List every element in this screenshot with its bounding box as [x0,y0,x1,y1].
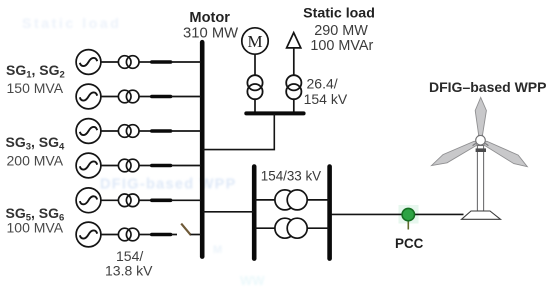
wire [191,234,202,236]
breaker B6 [152,233,171,237]
svg-text:WW: WW [240,273,265,287]
svg-text:Static load: Static load [22,15,121,31]
wire [139,96,151,98]
wire stub [171,234,177,236]
wire [254,99,256,112]
wire [307,227,329,229]
svg-text:150 MVA: 150 MVA [7,80,64,96]
base [462,211,501,219]
generator G3 [76,119,101,144]
svg-text:DFIG–based WPP: DFIG–based WPP [429,79,546,95]
svg-text:100 MVA: 100 MVA [7,220,64,236]
static load arrow [287,33,301,48]
generator G4 [76,153,101,178]
ghost text mid (DFIG-based WPP remnant) [100,177,237,193]
svg-text:13.8 kV: 13.8 kV [105,263,153,279]
svg-text:M: M [213,244,222,256]
ghost smudge bottom [240,273,265,287]
breaker B3 [152,129,171,133]
wire [171,61,201,63]
svg-text:M: M [247,32,262,51]
generator G2 [76,84,101,109]
wire row A [255,199,276,201]
PCC stub [407,219,409,230]
33 kV bus right [327,167,332,259]
transformer TB 154/33 [275,218,307,238]
generator G5 [76,188,101,213]
hub struts [473,135,489,146]
svg-text:200 MVA: 200 MVA [7,152,64,168]
generator G6 [76,222,101,247]
transformer T3 [118,125,139,138]
wire [171,199,201,201]
svg-text:SG3, SG4: SG3, SG4 [6,134,66,153]
svg-text:290 MW: 290 MW [314,23,368,39]
wire [139,165,151,167]
wire [171,96,201,98]
svg-text:DFIG-based WPP: DFIG-based WPP [100,177,237,193]
wire [139,199,151,201]
svg-text:154/33 kV: 154/33 kV [261,169,321,184]
svg-text:Motor: Motor [189,10,230,26]
wire row B [255,227,276,229]
wire [293,48,295,76]
wire [139,61,151,63]
svg-text:SG1, SG2: SG1, SG2 [6,62,65,81]
wire [101,130,118,132]
svg-text:PCC: PCC [395,236,424,251]
transformer T1 [118,56,139,69]
transformer T5 [118,194,139,207]
wire [254,54,256,75]
breaker B1 [152,60,171,64]
transformer T-L [286,75,301,99]
wire [171,130,201,132]
main 154 kV bus [200,42,205,256]
node PCC halo [399,205,419,224]
wire main bus to 33kV left bus [203,211,255,213]
motor U1 [242,28,268,54]
tower [477,146,483,212]
wire [139,130,151,132]
wire [101,96,118,98]
wind turbine blade up [475,97,486,136]
svg-text:154/: 154/ [116,248,143,264]
svg-text:Static load: Static load [303,5,375,21]
breaker B5 [152,199,171,203]
wind turbine blade right [484,141,527,167]
wire [171,165,201,167]
transformer T4 [118,159,139,172]
breaker B4 [152,164,171,168]
ghost text top-left [22,15,121,31]
154 kV mini bus [246,111,303,115]
wire to PCC and WPP [332,213,464,215]
33 kV bus left [252,167,257,259]
wind turbine blade left [432,141,478,165]
generator G1 [76,50,101,75]
svg-text:154 kV: 154 kV [304,91,348,107]
riser wire [203,114,275,150]
wire [293,99,295,112]
transformer T6 [118,228,139,241]
breaker B2 [152,95,171,99]
hub [476,136,486,146]
open switch SG6 (brown blade) [181,224,191,236]
nacelle collar [476,148,486,152]
svg-text:310 MW: 310 MW [183,25,238,41]
svg-text:26.4/: 26.4/ [307,76,338,92]
transformer T-M [247,75,262,99]
svg-text:100 MVAr: 100 MVAr [310,38,373,54]
ghost smudge right of bus bottom [213,244,222,256]
wire [101,199,118,201]
wire [307,199,329,201]
wire [101,61,118,63]
wire [101,234,118,236]
node PCC [402,208,414,220]
transformer T2 [118,90,139,103]
wire [101,165,118,167]
transformer TA 154/33 [275,190,307,210]
wire [139,234,151,236]
